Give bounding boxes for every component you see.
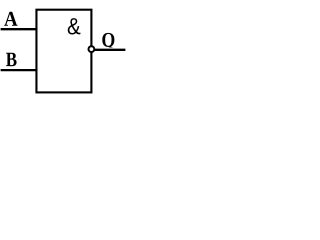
label A <box>4 12 17 26</box>
input wire A <box>1 28 37 30</box>
NAND gate body U1 (IEC rectangle) <box>36 10 91 93</box>
label B <box>6 53 17 66</box>
output wire Q <box>93 49 125 51</box>
function label & <box>68 18 81 34</box>
input wire B <box>1 69 37 71</box>
output inversion bubble <box>89 46 95 52</box>
label Q <box>102 33 114 48</box>
